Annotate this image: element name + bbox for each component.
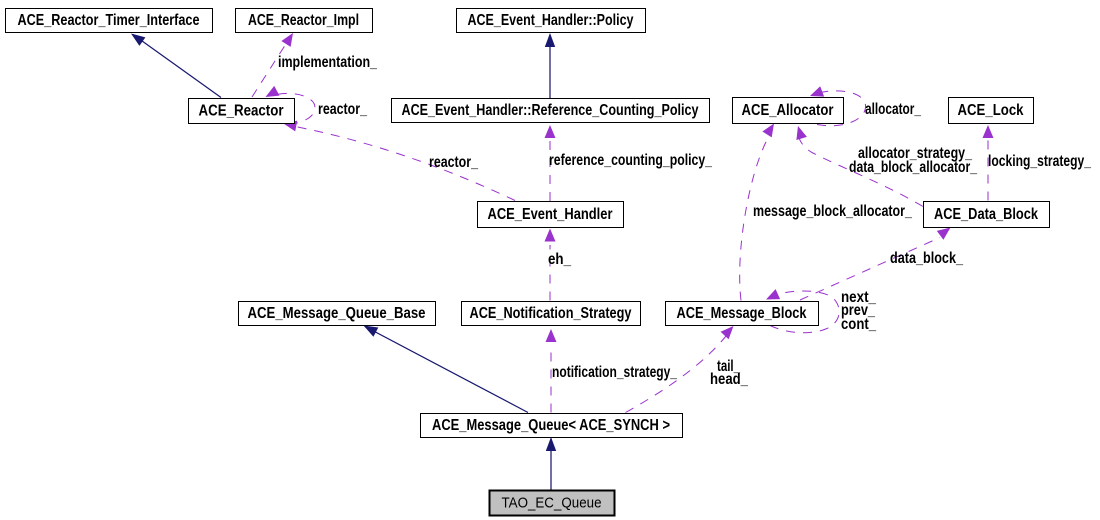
collaboration edge reference_counting_policy_ ACE_Event_Handler to Reference_Counting_Policy — [545, 125, 556, 201]
class box ACE_Reactor_Impl — [236, 9, 373, 33]
edge label allocator_ (self loop) — [865, 101, 921, 118]
class box ACE_Message_Queue< ACE_SYNCH > — [421, 414, 683, 438]
collaboration edge message_block_allocator_ ACE_Message_Block to ACE_Allocator — [740, 124, 774, 301]
svg-text:ACE_Reactor_Timer_Interface: ACE_Reactor_Timer_Interface — [18, 12, 200, 29]
svg-text:TAO_EC_Queue: TAO_EC_Queue — [502, 495, 602, 512]
svg-text:ACE_Lock: ACE_Lock — [958, 102, 1024, 119]
svg-text:reactor_: reactor_ — [429, 154, 478, 171]
edge label next_ — [841, 289, 876, 306]
svg-text:ACE_Message_Queue_Base: ACE_Message_Queue_Base — [248, 305, 426, 322]
class box ACE_Event_Handler — [478, 202, 624, 228]
svg-text:allocator_: allocator_ — [865, 101, 921, 118]
collaboration edge notification_strategy_ ACE_Message_Queue to ACE_Notification_Strategy — [546, 329, 557, 413]
edge label implementation_ — [278, 54, 377, 71]
class box ACE_Event_Handler::Policy — [457, 9, 646, 33]
svg-text:ACE_Notification_Strategy: ACE_Notification_Strategy — [470, 305, 632, 322]
svg-text:ACE_Message_Block: ACE_Message_Block — [677, 305, 807, 322]
collaboration edge reactor_ self loop on ACE_Reactor — [266, 86, 315, 125]
svg-text:data_block_allocator_: data_block_allocator_ — [849, 159, 977, 176]
edge label tail_ — [717, 358, 740, 375]
edge label data_block_allocator_ — [849, 159, 977, 176]
collaboration edge eh_ ACE_Notification_Strategy to ACE_Event_Handler — [545, 229, 556, 301]
edge label head_ — [710, 371, 748, 388]
class box ACE_Event_Handler::Reference_Counting_Policy — [392, 99, 710, 123]
svg-text:ACE_Event_Handler::Policy: ACE_Event_Handler::Policy — [468, 12, 634, 29]
inheritance edge ACE_Reactor to ACE_Reactor_Timer_Interface — [131, 34, 221, 98]
svg-text:ACE_Data_Block: ACE_Data_Block — [934, 206, 1038, 223]
class box ACE_Notification_Strategy — [462, 302, 641, 326]
collaboration edge locking_strategy_ ACE_Data_Block to ACE_Lock — [983, 125, 994, 201]
svg-text:head_: head_ — [710, 371, 748, 388]
svg-text:reactor_: reactor_ — [318, 101, 367, 118]
svg-text:ACE_Event_Handler: ACE_Event_Handler — [488, 206, 613, 223]
collaboration edge allocator_strategy_ data_block_allocator_ ACE_Data_Block to ACE_Allocator — [796, 126, 923, 207]
edge label message_block_allocator_ — [753, 203, 912, 220]
edge label reactor_ — [429, 154, 478, 171]
edge label data_block_ — [890, 250, 963, 267]
inheritance edge ACE_Event_Handler::Reference_Counting_Policy to ACE_Event_Handler::Policy — [545, 33, 555, 98]
svg-text:data_block_: data_block_ — [890, 250, 963, 267]
svg-text:implementation_: implementation_ — [278, 54, 377, 71]
edge label reactor_ (self loop) — [318, 101, 367, 118]
edge label cont_ — [841, 316, 876, 333]
svg-text:cont_: cont_ — [841, 316, 876, 333]
collaboration edge next_ prev_ cont_ self loop on ACE_Message_Block — [766, 289, 839, 333]
svg-text:ACE_Allocator: ACE_Allocator — [742, 102, 834, 119]
svg-text:locking_strategy_: locking_strategy_ — [988, 153, 1091, 170]
class box ACE_Data_Block — [924, 202, 1050, 228]
svg-text:reference_counting_policy_: reference_counting_policy_ — [549, 152, 712, 169]
svg-text:ACE_Reactor_Impl: ACE_Reactor_Impl — [248, 12, 359, 29]
inheritance edge ACE_Message_Queue to ACE_Message_Queue_Base — [364, 326, 529, 413]
svg-text:ACE_Message_Queue< ACE_SYNCH >: ACE_Message_Queue< ACE_SYNCH > — [432, 417, 670, 434]
collaboration edge tail_ head_ ACE_Message_Queue to ACE_Message_Block — [626, 326, 734, 413]
svg-text:message_block_allocator_: message_block_allocator_ — [753, 203, 912, 220]
class box ACE_Message_Block — [666, 302, 819, 326]
edge label prev_ — [841, 302, 875, 319]
class box ACE_Reactor — [189, 99, 295, 124]
class box TAO_EC_Queue (current class) — [490, 491, 615, 516]
svg-text:ACE_Reactor: ACE_Reactor — [199, 103, 284, 120]
class box ACE_Allocator — [733, 98, 844, 124]
edge label notification_strategy_ — [552, 364, 677, 381]
class box ACE_Reactor_Timer_Interface — [6, 9, 213, 33]
edge label locking_strategy_ — [988, 153, 1091, 170]
svg-text:ACE_Event_Handler::Reference_C: ACE_Event_Handler::Reference_Counting_Po… — [402, 102, 699, 119]
edge label allocator_strategy_ — [858, 145, 972, 162]
collaboration edge allocator_ self loop on ACE_Allocator — [810, 86, 866, 125]
inheritance edge TAO_EC_Queue to ACE_Message_Queue — [546, 437, 556, 490]
collaboration edge data_block_ ACE_Message_Block to ACE_Data_Block — [800, 228, 951, 301]
collaboration edge reactor_ ACE_Event_Handler to ACE_Reactor — [284, 121, 516, 201]
class box ACE_Lock — [949, 98, 1034, 124]
edge label eh_ — [548, 251, 571, 268]
edge label reference_counting_policy_ — [549, 152, 712, 169]
svg-text:notification_strategy_: notification_strategy_ — [552, 364, 677, 381]
svg-text:eh_: eh_ — [548, 251, 571, 268]
collaboration edge implementation_ ACE_Reactor to ACE_Reactor_Impl — [252, 33, 293, 97]
class box ACE_Message_Queue_Base — [239, 302, 436, 326]
